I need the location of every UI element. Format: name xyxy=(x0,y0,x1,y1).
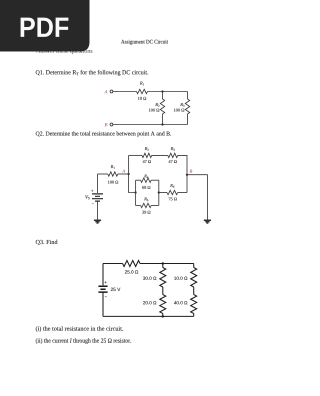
resistor 10 ohm xyxy=(174,264,197,288)
wire node A down to loop xyxy=(129,174,136,193)
loop left edge wire xyxy=(135,180,137,205)
Q3 battery 25 V xyxy=(98,264,120,317)
Q3 question text xyxy=(36,240,58,245)
Q3 node bottom of middle column xyxy=(162,315,164,317)
resistor R3 xyxy=(174,92,190,125)
middle column connector xyxy=(162,287,164,295)
loop right junction xyxy=(158,191,160,193)
resistor R6 xyxy=(159,184,187,200)
top rail right segment, down to node B xyxy=(178,155,187,174)
loop right edge wire xyxy=(158,180,160,205)
terminal B xyxy=(105,123,113,126)
Q1 question text xyxy=(36,70,148,76)
resistor R2 (Q2) xyxy=(142,147,152,163)
Q2 question text xyxy=(36,131,171,136)
top rail mid segment xyxy=(152,154,168,156)
Q3 node top of middle column xyxy=(162,262,164,264)
resistor 40 ohm xyxy=(174,295,197,317)
Q3 top rail with 25 ohm resistor xyxy=(103,261,194,274)
resistor R5 xyxy=(136,197,159,213)
resistor 30 ohm xyxy=(143,264,166,288)
resistor R2 xyxy=(149,92,165,125)
node junction top of R2 xyxy=(161,90,163,92)
ground under battery xyxy=(94,220,101,223)
terminal A xyxy=(104,90,113,93)
Q3 bottom rail xyxy=(103,315,194,317)
wire R6 up to node B xyxy=(186,175,188,193)
bottom wire B rail xyxy=(113,124,188,126)
resistor R1 xyxy=(137,82,148,100)
node B (Q2) xyxy=(186,170,192,176)
resistor R3 (Q2) xyxy=(168,147,178,163)
wire node B to right and down xyxy=(187,175,207,220)
right column connector xyxy=(193,287,195,295)
resistor R4 xyxy=(136,175,159,189)
wire node A up to top rail xyxy=(128,155,130,174)
wire A to R1 xyxy=(113,91,137,93)
item (i) text xyxy=(36,326,123,332)
node A (Q2) xyxy=(122,169,130,175)
node junction bottom of R2 xyxy=(161,123,163,125)
resistor R1 (Q2) xyxy=(98,165,129,183)
top rail left segment xyxy=(129,154,142,156)
hidden instruction text line xyxy=(36,49,92,54)
title xyxy=(121,40,168,45)
loop left junction xyxy=(135,191,137,193)
PDF badge xyxy=(0,0,90,52)
item (ii) text xyxy=(36,338,131,344)
wire R1 to top-right xyxy=(148,91,188,93)
battery VS xyxy=(85,174,103,220)
ground right xyxy=(204,220,211,223)
resistor 20 ohm xyxy=(143,295,166,317)
